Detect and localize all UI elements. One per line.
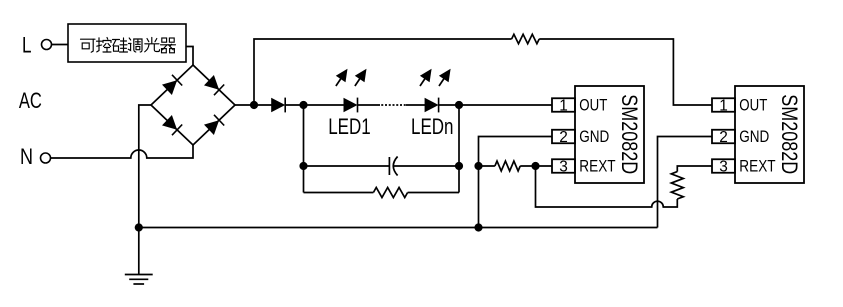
- wire bridge positive output: [235, 104, 272, 106]
- svg-text:L: L: [22, 33, 32, 58]
- wire capacitor branch left: [304, 165, 390, 167]
- LED1 light arrows: [336, 69, 367, 86]
- bridge diode D3 (bottom-right): [204, 115, 224, 135]
- svg-text:N: N: [20, 144, 33, 169]
- IC U2 SM2082D body: [735, 86, 804, 183]
- svg-text:SM2082D: SM2082D: [777, 94, 802, 174]
- wire LED1 to dotted: [358, 104, 381, 106]
- wire dimmer to bridge top: [186, 47, 193, 66]
- node: LED string cathode: [455, 101, 463, 109]
- wire dotted to LEDn: [406, 104, 425, 106]
- wire capacitor branch right: [394, 165, 460, 167]
- svg-text:3: 3: [719, 158, 728, 175]
- wire D5 to LED string: [285, 104, 344, 106]
- svg-text:2: 2: [559, 129, 568, 146]
- svg-text:1: 1: [559, 97, 568, 114]
- wire bottom rail: [139, 227, 658, 229]
- wire U1 GND: [479, 137, 553, 228]
- svg-text:GND: GND: [739, 128, 769, 146]
- node: DC+ junction: [250, 101, 258, 109]
- dotted wire (more LEDs): [380, 104, 407, 106]
- wire REXT link to R4 (hops over U2 GND wire): [536, 166, 678, 207]
- svg-text:OUT: OUT: [579, 97, 607, 115]
- wire DC+ up to top rail: [254, 39, 512, 105]
- svg-text:OUT: OUT: [739, 97, 767, 115]
- pin 2 box of U2: [712, 129, 735, 146]
- wire R4 to U2 REXT pin: [677, 166, 712, 172]
- LED1: [344, 98, 358, 113]
- bridge diode D4 (bottom-left): [162, 115, 182, 135]
- wire LED cathode down: [458, 105, 460, 193]
- svg-text:LEDn: LEDn: [411, 114, 454, 139]
- resistor R3 (U1 REXT): [495, 161, 520, 171]
- pin 1 box of U2: [712, 97, 735, 114]
- wire top rail to U2 OUT: [539, 39, 712, 105]
- node: U1 Rext left: [474, 162, 482, 170]
- svg-text:SM2082D: SM2082D: [617, 94, 642, 174]
- svg-text:1: 1: [719, 97, 728, 114]
- LEDn: [425, 98, 439, 113]
- wire L to dimmer: [52, 44, 69, 46]
- LEDn light arrows: [420, 69, 451, 86]
- wire to resistor R3: [479, 165, 495, 167]
- node: ground rail left: [135, 223, 143, 231]
- svg-text:REXT: REXT: [739, 158, 775, 176]
- wire LEDn to U1 OUT: [439, 104, 553, 106]
- wire U2 GND down to bottom rail: [658, 137, 713, 228]
- wire R3 to U1 REXT pin: [520, 165, 552, 167]
- bridge diode D2 (top-left): [162, 75, 182, 95]
- pin 1 box of U1: [552, 97, 575, 114]
- resistor R4 (U2 REXT, vertical): [671, 172, 683, 199]
- dimmer box 可控硅调光器: [68, 24, 186, 62]
- pin 2 box of U1: [552, 129, 575, 146]
- svg-text:AC: AC: [19, 88, 42, 113]
- svg-text:3: 3: [559, 158, 568, 175]
- ground symbol: [125, 275, 153, 285]
- resistor R2 (parallel with LEDs): [373, 188, 407, 198]
- node: U1 GND on rail: [474, 223, 482, 231]
- pin 3 box of U2: [712, 158, 735, 175]
- resistor R1 (top rail): [512, 34, 540, 43]
- capacitor C1: [389, 157, 397, 176]
- pin 3 box of U1: [552, 158, 575, 175]
- bridge rectifier diamond: [151, 65, 235, 145]
- wire N to bridge bottom (hops over ground wire): [51, 145, 194, 158]
- wire bridge negative output to ground: [139, 105, 151, 275]
- node: LED string anode: [299, 101, 307, 109]
- node: REXT link: [531, 162, 539, 170]
- svg-text:REXT: REXT: [579, 158, 615, 176]
- svg-text:LED1: LED1: [328, 114, 371, 139]
- IC U1 SM2082D body: [575, 86, 644, 183]
- node: cap right: [455, 162, 463, 170]
- bridge diode D1 (top-right): [204, 75, 224, 95]
- wire resistor branch right: [408, 192, 459, 194]
- wire LED anode down: [303, 105, 305, 193]
- wire resistor branch left: [304, 192, 374, 194]
- svg-text:2: 2: [719, 129, 728, 146]
- svg-text:GND: GND: [579, 128, 609, 146]
- diode D5 (series): [271, 98, 285, 113]
- node: cap left: [299, 162, 307, 170]
